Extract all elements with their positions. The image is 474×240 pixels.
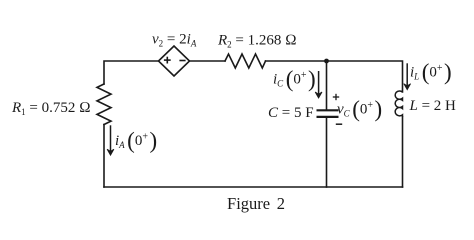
resistor R2 bbox=[225, 54, 266, 68]
arrow iL bbox=[404, 63, 411, 89]
wire R2 to node A bbox=[266, 60, 327, 62]
wire right below inductor bbox=[402, 117, 404, 187]
dependent source U1 diamond bbox=[159, 46, 190, 76]
wire capacitor branch upper bbox=[326, 61, 328, 110]
capacitor minus polarity bbox=[336, 123, 342, 125]
wire diamond to R2 bbox=[190, 60, 226, 62]
resistor R1 bbox=[97, 84, 111, 125]
arrow iC bbox=[315, 71, 322, 98]
wire left below R1 bbox=[103, 125, 105, 188]
capacitor C1 plates bbox=[317, 110, 339, 117]
capacitor plus polarity bbox=[333, 94, 339, 100]
svg-text:C = 5 F: C = 5 F bbox=[268, 105, 314, 121]
arrow iA bbox=[107, 125, 114, 155]
wire node A to top-right corner bbox=[327, 61, 403, 92]
svg-text:Figure 2: Figure 2 bbox=[227, 194, 285, 213]
wire capacitor branch lower bbox=[326, 118, 328, 187]
wire bottom bbox=[104, 186, 403, 188]
plus sign in diamond bbox=[164, 57, 171, 64]
minus sign in diamond bbox=[179, 60, 185, 62]
svg-text:L = 2 H: L = 2 H bbox=[409, 98, 457, 114]
node A junction dot bbox=[324, 59, 329, 64]
wire top-left: corner to diamond bbox=[104, 61, 159, 84]
inductor L1 coil bbox=[395, 91, 402, 117]
